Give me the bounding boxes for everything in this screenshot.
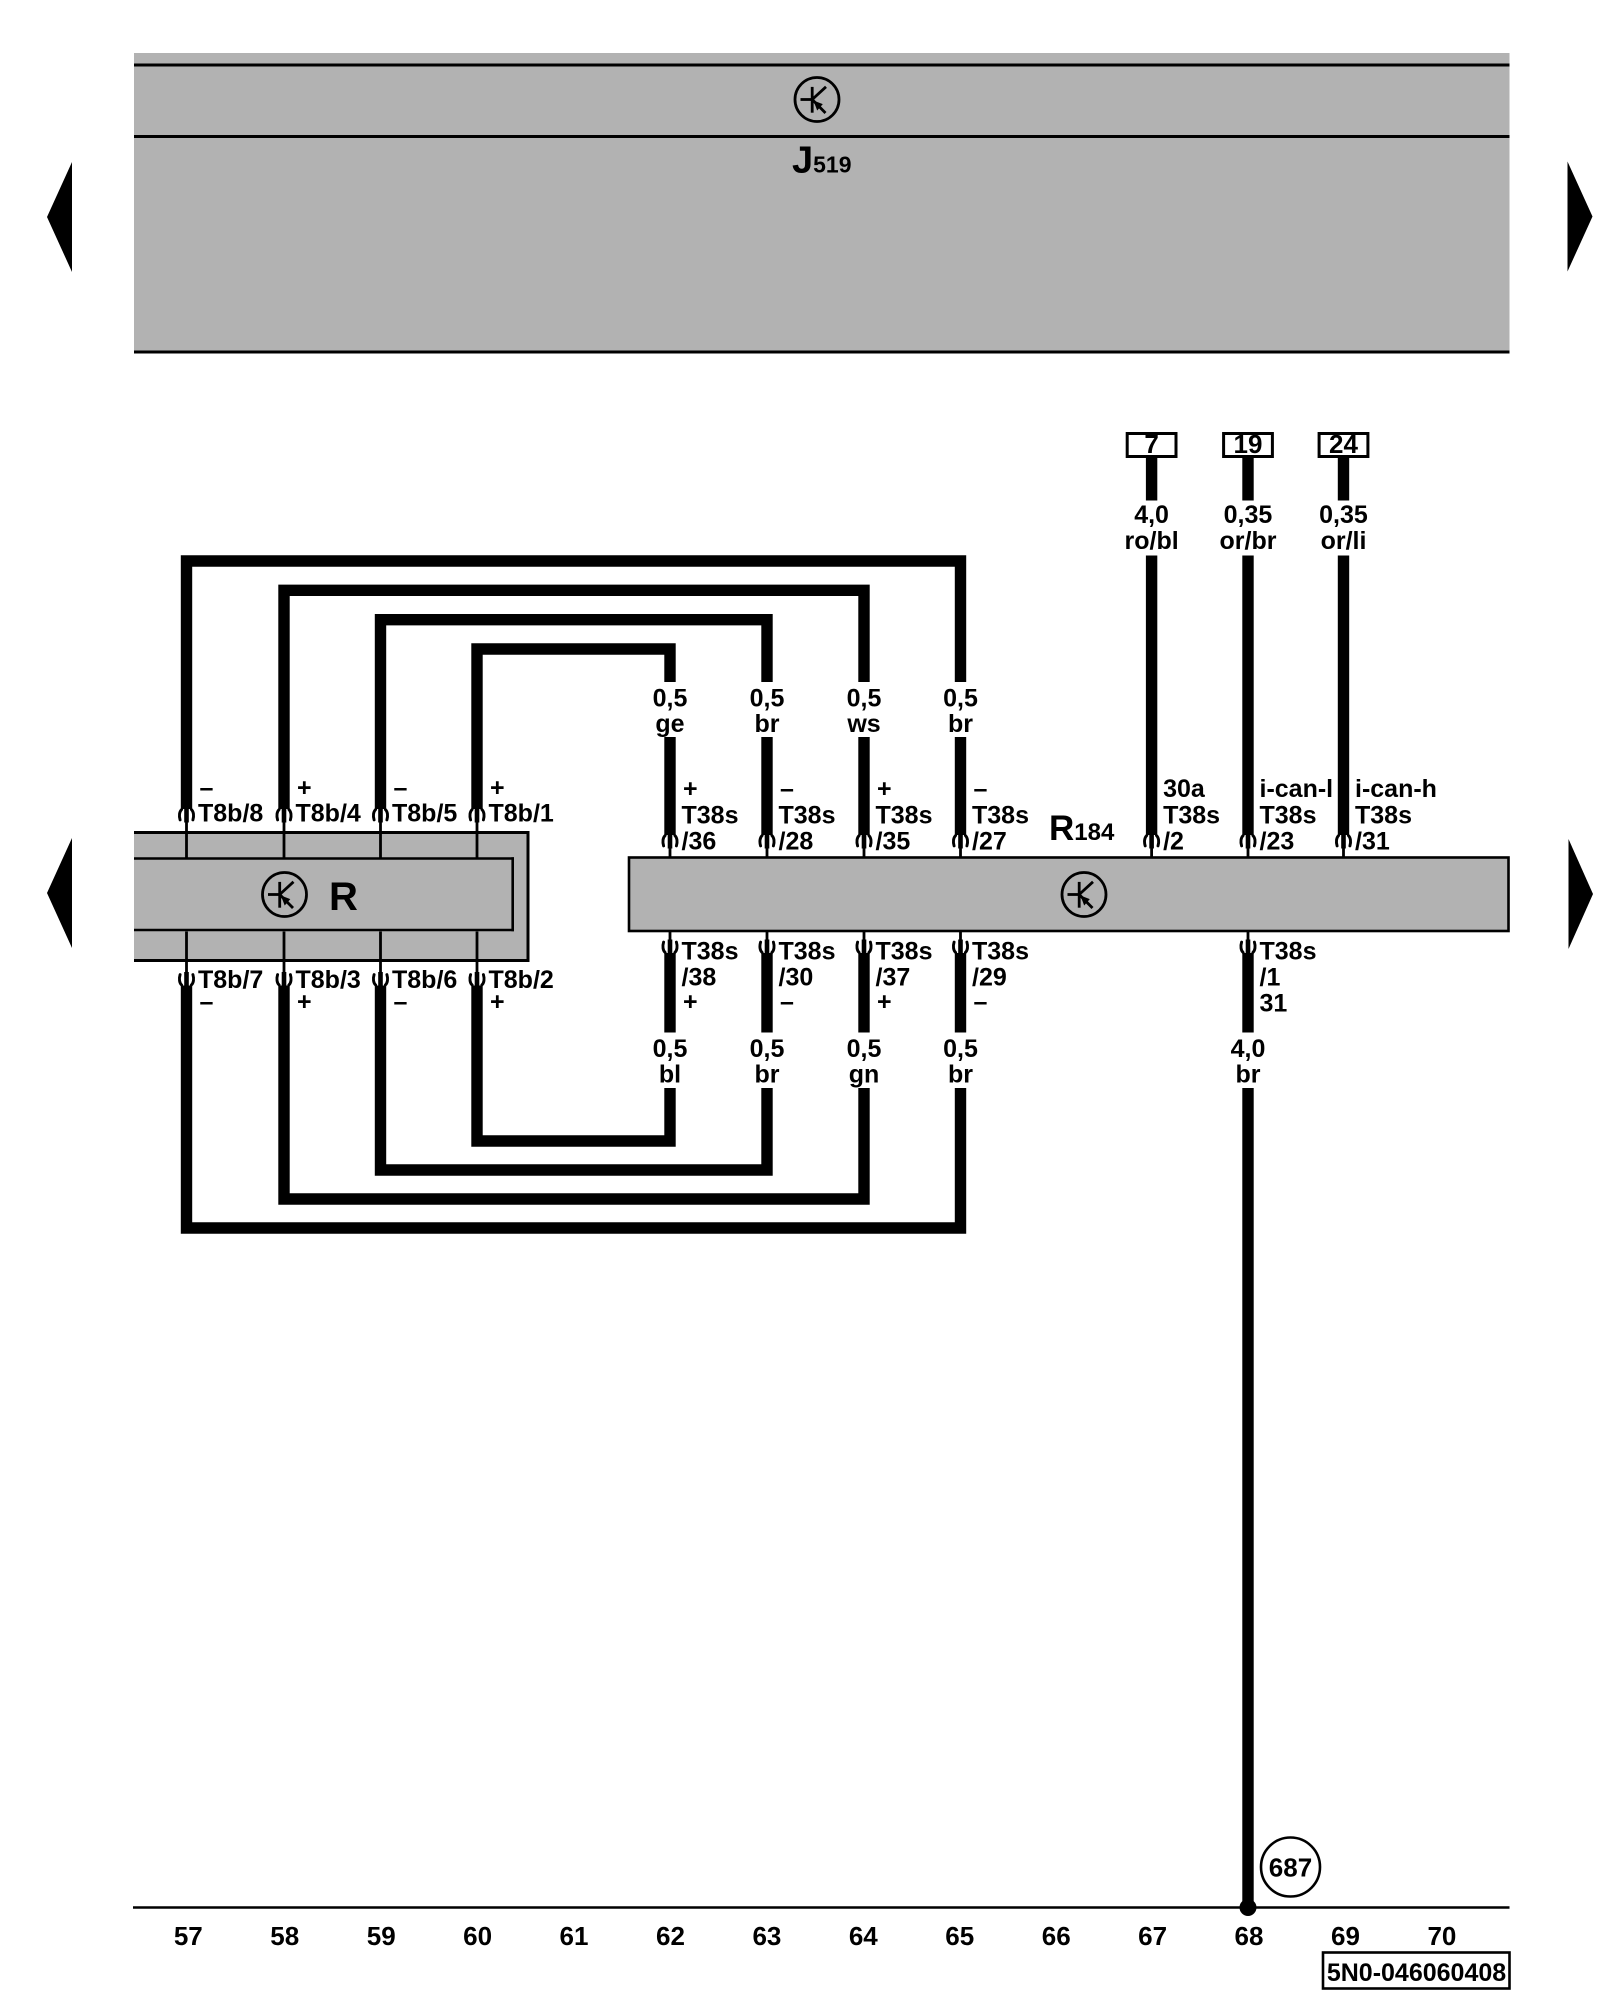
pin T38s/28 (top of R184) [760, 775, 836, 859]
svg-text:T8b/1: T8b/1 [489, 800, 554, 828]
terminal box 7 [1127, 429, 1176, 459]
pin T38s/38 (bottom of R184) [663, 931, 739, 1016]
svg-text:58: 58 [270, 1921, 299, 1951]
wire label 0,5 ws [846, 685, 881, 739]
pin T38s/36 (top of R184) [663, 775, 739, 859]
svg-text:or/li: or/li [1321, 527, 1367, 555]
svg-text:67: 67 [1138, 1921, 1167, 1951]
svg-text:59: 59 [367, 1921, 396, 1951]
diagram code box 5N0-046060408 [1323, 1953, 1510, 1989]
svg-text:4,0: 4,0 [1134, 501, 1169, 529]
wire label 0,5 br [750, 1035, 785, 1089]
svg-text:ro/bl: ro/bl [1125, 527, 1179, 555]
svg-text:+: + [297, 774, 312, 802]
svg-text:/36: /36 [682, 828, 717, 856]
wire T8b/5 to T38s/28 (upper loop) [381, 620, 768, 835]
wire label 0,35 or/br [1220, 501, 1277, 555]
svg-text:T8b/5: T8b/5 [392, 800, 457, 828]
control unit symbol in J519 [795, 78, 839, 122]
svg-text:T38s: T38s [1355, 802, 1412, 830]
svg-text:T8b/4: T8b/4 [296, 800, 361, 828]
svg-text:0,5: 0,5 [653, 1035, 688, 1063]
svg-text:–: – [974, 988, 988, 1016]
svg-text:gn: gn [849, 1061, 880, 1089]
svg-text:66: 66 [1042, 1921, 1071, 1951]
svg-text:31: 31 [1260, 990, 1288, 1018]
pin T8b/1 (top of R) [470, 774, 554, 859]
svg-text:/27: /27 [972, 828, 1007, 856]
svg-text:–: – [200, 988, 214, 1016]
svg-text:62: 62 [656, 1921, 685, 1951]
svg-text:19: 19 [1234, 429, 1263, 459]
wire T8b/1 to T38s/36 (upper loop) [477, 649, 670, 835]
svg-text:T38s: T38s [876, 802, 933, 830]
pin T8b/4 (top of R) [277, 774, 361, 859]
svg-text:5N0-046060408: 5N0-046060408 [1327, 1959, 1506, 1987]
svg-text:+: + [490, 988, 505, 1016]
svg-text:T38s: T38s [1260, 938, 1317, 966]
right direction arrow (top row) [1568, 162, 1593, 272]
svg-text:/2: /2 [1163, 828, 1184, 856]
wire T8b/3 to T38s/37 (lower loop) [284, 953, 864, 1199]
control unit symbol in R [263, 873, 307, 917]
pin T8b/8 (top of R) [179, 774, 263, 859]
svg-text:+: + [490, 774, 505, 802]
svg-text:T38s: T38s [972, 938, 1029, 966]
radio R box (gray, partially shown) [134, 831, 530, 962]
svg-text:–: – [974, 775, 988, 803]
svg-text:/1: /1 [1260, 964, 1281, 992]
pin T38s/23 (top of R184) [1241, 775, 1333, 859]
amplifier R184 box [629, 858, 1509, 932]
pin T8b/6 (bottom of R) [373, 932, 457, 1017]
svg-text:R184: R184 [1049, 809, 1115, 848]
pin T8b/2 (bottom of R) [470, 932, 554, 1017]
svg-text:R: R [329, 875, 358, 919]
svg-text:/35: /35 [876, 828, 911, 856]
svg-text:0,5: 0,5 [750, 1035, 785, 1063]
svg-text:br: br [948, 710, 973, 738]
svg-text:or/br: or/br [1220, 527, 1277, 555]
pin T38s/29 (bottom of R184) [953, 931, 1029, 1016]
svg-text:0,5: 0,5 [847, 1035, 882, 1063]
pin T38s/31 (top of R184) [1336, 775, 1437, 859]
svg-text:i-can-l: i-can-l [1260, 775, 1334, 803]
svg-text:+: + [683, 988, 698, 1016]
svg-text:+: + [877, 988, 892, 1016]
svg-text:–: – [394, 774, 408, 802]
wire label 0,5 br [943, 1035, 978, 1089]
pin T8b/7 (bottom of R) [179, 932, 263, 1017]
svg-text:T38s: T38s [779, 938, 836, 966]
pin T38s/2 (top of R184) [1145, 775, 1221, 859]
wire 4,0 ro/bl from terminal box to R184 [1146, 456, 1157, 835]
wire 0,35 or/li from terminal box to R184 [1338, 456, 1349, 835]
svg-text:64: 64 [849, 1921, 878, 1951]
wire T8b/6 to T38s/30 (lower loop) [381, 953, 768, 1170]
control unit J519 (onboard supply control unit) box [134, 53, 1510, 352]
wire T8b/8 to T38s/27 (upper loop) [187, 561, 961, 835]
svg-text:–: – [394, 988, 408, 1016]
svg-text:24: 24 [1329, 429, 1358, 459]
right direction arrow (middle row) [1569, 839, 1594, 949]
svg-text:–: – [780, 775, 794, 803]
svg-text:T38s: T38s [779, 802, 836, 830]
svg-text:–: – [200, 774, 214, 802]
svg-text:i-can-h: i-can-h [1355, 775, 1437, 803]
svg-text:0,5: 0,5 [943, 685, 978, 713]
svg-text:60: 60 [463, 1921, 492, 1951]
svg-text:ws: ws [846, 710, 880, 738]
wire 0,35 or/br from terminal box to R184 [1242, 456, 1253, 835]
svg-text:68: 68 [1235, 1921, 1264, 1951]
terminal box 19 [1224, 429, 1273, 459]
svg-text:T38s: T38s [876, 938, 933, 966]
svg-text:4,0: 4,0 [1231, 1035, 1266, 1063]
wire T8b/2 to T38s/38 (lower loop) [477, 953, 670, 1141]
wire junction on ground rail [1240, 1899, 1257, 1916]
svg-text:T38s: T38s [1163, 802, 1220, 830]
pin T38s/1 terminal 31 (bottom of R184) [1241, 931, 1317, 1018]
svg-text:687: 687 [1269, 1853, 1312, 1883]
svg-text:/28: /28 [779, 828, 814, 856]
left direction arrow (top row) [47, 162, 72, 272]
svg-text:br: br [948, 1061, 973, 1089]
svg-text:–: – [780, 988, 794, 1016]
wire label 4,0 ro/bl [1125, 501, 1179, 555]
svg-text:T8b/8: T8b/8 [198, 800, 263, 828]
svg-text:bl: bl [659, 1061, 681, 1089]
pin T8b/3 (bottom of R) [277, 932, 361, 1017]
terminal box 24 [1319, 429, 1368, 459]
svg-text:/23: /23 [1260, 828, 1295, 856]
svg-text:61: 61 [560, 1921, 589, 1951]
pin T38s/37 (bottom of R184) [857, 931, 933, 1016]
pin T38s/35 (top of R184) [857, 775, 933, 859]
svg-text:0,35: 0,35 [1224, 501, 1273, 529]
wire label 0,5 ge [653, 685, 688, 739]
svg-text:+: + [297, 988, 312, 1016]
wire label 4,0 br [1231, 1035, 1266, 1089]
svg-text:br: br [755, 710, 780, 738]
svg-text:7: 7 [1144, 429, 1158, 459]
wire label 0,5 bl [653, 1035, 688, 1089]
svg-text:69: 69 [1331, 1921, 1360, 1951]
ground rail / current track base line [133, 1906, 1510, 1908]
ground connection 687 [1261, 1838, 1320, 1897]
svg-text:30a: 30a [1163, 775, 1206, 803]
wire T8b/4 to T38s/35 (upper loop) [284, 590, 864, 835]
svg-text:+: + [683, 775, 698, 803]
wire label 0,5 br [750, 685, 785, 739]
svg-text:57: 57 [174, 1921, 203, 1951]
svg-text:T38s: T38s [682, 802, 739, 830]
svg-text:T38s: T38s [682, 938, 739, 966]
svg-text:0,35: 0,35 [1319, 501, 1368, 529]
svg-text:63: 63 [752, 1921, 781, 1951]
svg-text:0,5: 0,5 [847, 685, 882, 713]
control unit symbol in R184 [1062, 873, 1106, 917]
wire label 0,5 br [943, 685, 978, 739]
svg-text:br: br [1236, 1061, 1261, 1089]
wire label 0,35 or/li [1319, 501, 1368, 555]
current track numbers 57-70 [174, 1921, 1457, 1951]
wire 4,0 br (ground wire to track 68) [1242, 953, 1253, 1908]
svg-text:65: 65 [945, 1921, 974, 1951]
wire label 0,5 gn [847, 1035, 882, 1089]
svg-text:70: 70 [1427, 1921, 1456, 1951]
svg-text:0,5: 0,5 [943, 1035, 978, 1063]
svg-text:ge: ge [655, 710, 684, 738]
pin T38s/30 (bottom of R184) [760, 931, 836, 1016]
svg-text:0,5: 0,5 [750, 685, 785, 713]
svg-text:T38s: T38s [972, 802, 1029, 830]
left direction arrow (middle row) [47, 838, 72, 948]
pin T38s/27 (top of R184) [953, 775, 1029, 859]
svg-text:T38s: T38s [1260, 802, 1317, 830]
svg-text:/31: /31 [1355, 828, 1390, 856]
svg-text:0,5: 0,5 [653, 685, 688, 713]
svg-text:br: br [755, 1061, 780, 1089]
pin T8b/5 (top of R) [373, 774, 457, 859]
wire T8b/7 to T38s/29 (lower loop) [187, 953, 961, 1228]
svg-text:+: + [877, 775, 892, 803]
